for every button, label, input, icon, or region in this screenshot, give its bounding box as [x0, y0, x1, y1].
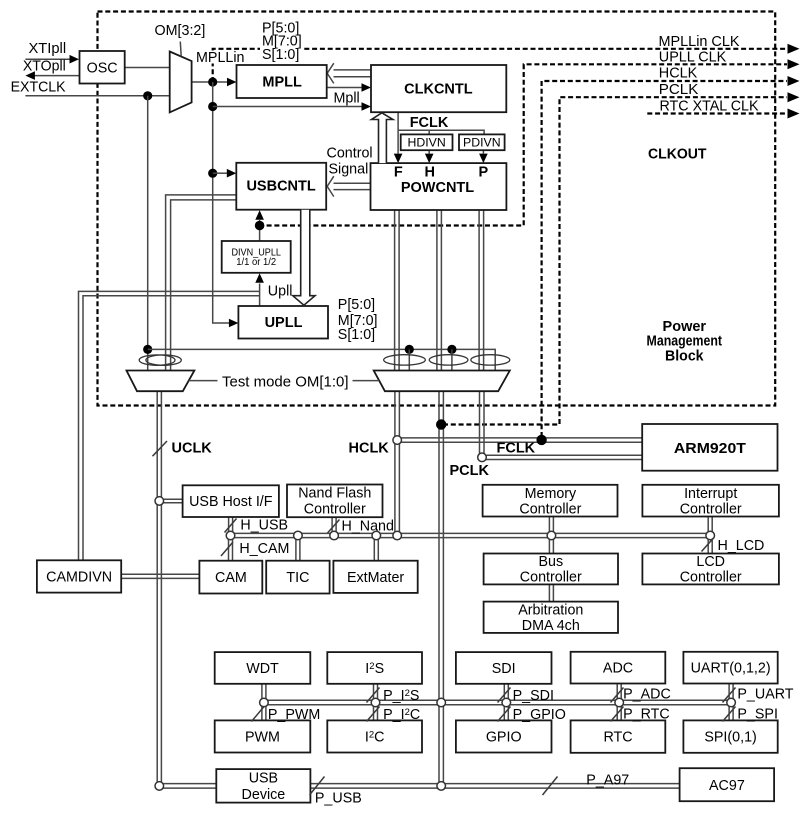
wire XTOpll output: [35, 75, 80, 77]
block TIC: [266, 561, 329, 594]
svg-text:Controller: Controller: [680, 570, 742, 586]
svg-text:Block: Block: [665, 348, 704, 364]
svg-text:RTC: RTC: [603, 730, 632, 746]
svg-text:H_USB: H_USB: [240, 518, 288, 534]
svg-text:P_ADC: P_ADC: [623, 687, 671, 703]
svg-text:WDT: WDT: [246, 661, 279, 677]
svg-text:USB Host I/F: USB Host I/F: [189, 494, 273, 510]
wire PWM stub: [261, 705, 263, 721]
wire UCLK: [156, 391, 158, 786]
svg-text:UCLK: UCLK: [172, 440, 213, 456]
wire POWCNTL F pair: [394, 210, 396, 371]
wire RTC stub: [616, 705, 618, 721]
wire UART stub: [728, 684, 730, 701]
tick P_SDI: [498, 688, 511, 703]
svg-text:XTOpll: XTOpll: [23, 59, 66, 75]
wire Bus Controller stub: [548, 538, 550, 554]
svg-text:USB: USB: [249, 771, 278, 787]
junction test tap 1: [405, 345, 414, 354]
wire divider branch: [398, 130, 484, 134]
wire test tap 1: [408, 349, 410, 370]
svg-text:OSC: OSC: [87, 60, 118, 76]
svg-text:Signal: Signal: [329, 162, 369, 178]
svg-text:HCLK: HCLK: [349, 440, 390, 456]
svg-text:Arbitration: Arbitration: [518, 602, 583, 618]
svg-text:XTIpll: XTIpll: [29, 41, 67, 57]
svg-text:PCLK: PCLK: [450, 463, 490, 479]
junction H bus TIC: [294, 531, 303, 540]
svg-text:PWM: PWM: [245, 730, 280, 746]
svg-text:DMA 4ch: DMA 4ch: [522, 618, 580, 634]
wire OSC to mux: [125, 67, 170, 69]
svg-text:H: H: [425, 164, 435, 180]
tick P_I2S: [367, 688, 380, 703]
label MPLL PMS: [260, 21, 303, 60]
bus PCLK bottom right: [310, 783, 679, 785]
svg-text:P_I2C: P_I2C: [383, 707, 420, 723]
junction UPLL CLK tap: [255, 221, 265, 231]
wire UCLK to USB Host IF: [159, 498, 182, 500]
block GPIO: [456, 720, 552, 752]
svg-text:Power: Power: [663, 319, 707, 335]
junction MPLLin to CLKCNTL: [208, 102, 217, 111]
junction P bus PWM: [260, 698, 269, 707]
wire I2S stub: [373, 684, 375, 700]
junction H bus Nand: [330, 531, 339, 540]
block I2S: [327, 652, 422, 684]
bundle ellipse left b: [146, 355, 181, 365]
svg-text:P_USB: P_USB: [315, 791, 362, 807]
svg-text:FCLK: FCLK: [410, 115, 449, 131]
wire ADC stub: [616, 684, 618, 701]
wire PCLK below mux: [438, 391, 440, 786]
wire FCLK CLKCNTL to POWCNTL: [397, 112, 399, 153]
block Arbitration DMA: [484, 602, 618, 633]
svg-text:MPLLin: MPLLin: [196, 50, 245, 66]
block LCD Controller: [642, 554, 779, 585]
wire test mode label left: [189, 380, 218, 382]
divider DIVN_UPLL: [222, 241, 291, 273]
tick P_ADC: [611, 688, 624, 703]
tick P_SPI: [723, 707, 736, 722]
svg-text:CAMDIVN: CAMDIVN: [46, 570, 112, 586]
wire XTIpll input: [25, 58, 70, 60]
wire Interrupt Controller stub: [707, 517, 709, 534]
junction test line left: [143, 345, 152, 354]
junction P bus I2S: [371, 698, 380, 707]
block PWM: [215, 720, 311, 752]
svg-text:S[1:0]: S[1:0]: [338, 327, 375, 343]
pll UPLL: [238, 306, 328, 339]
wire Mpll to CLKCNTL: [327, 87, 362, 89]
block Nand Flash Controller: [287, 485, 383, 518]
block ADC: [571, 652, 666, 684]
svg-text:MPLL: MPLL: [262, 75, 302, 91]
tick P_I2C: [367, 707, 380, 722]
junction bottom bus PCLK: [437, 782, 446, 791]
junction P bus UART: [727, 698, 736, 707]
wire SDI stub: [503, 684, 505, 700]
wire DIVN_UPLL to USBCNTL: [259, 220, 261, 241]
block USB Device: [216, 769, 310, 803]
wire MPLLin CLK dashed output: [213, 49, 787, 82]
wire H_CAM: [228, 538, 230, 561]
junction H bus ExtMater: [372, 531, 381, 540]
wire I2C stub: [373, 705, 375, 721]
wire HCLK dashed output: [542, 81, 787, 437]
divider PDIVN: [459, 134, 505, 150]
wire Upll to CAMDIVN: [79, 291, 260, 560]
svg-text:UART(0,1,2): UART(0,1,2): [691, 661, 771, 677]
bus PCLK bottom left: [159, 783, 216, 785]
bundle ellipse F: [384, 355, 426, 365]
svg-text:FCLK: FCLK: [497, 441, 536, 457]
wire CLKCNTL PMS bus to MPLL: [334, 69, 372, 71]
wire EXTCLK: [25, 95, 169, 97]
wire UPLL CLK dashed output: [259, 64, 787, 225]
label MPLLin: [194, 51, 244, 64]
svg-text:PDIVN: PDIVN: [463, 136, 501, 150]
block SPI: [683, 720, 777, 752]
bus FCLK to ARM920T: [482, 454, 642, 456]
svg-text:Controller: Controller: [680, 502, 742, 518]
svg-text:Device: Device: [242, 787, 286, 803]
mux test mode left: [127, 371, 195, 392]
tick H_LCD: [702, 538, 714, 552]
wire HDIVN to POWCNTL: [428, 150, 430, 153]
wire SPI stub: [728, 705, 730, 721]
junction PCLK dashed tap: [436, 419, 446, 429]
wire PCLK dashed output: [443, 97, 787, 424]
wire WDT stub: [261, 684, 263, 700]
wire test mode label right: [353, 380, 380, 382]
block arrow USBCNTL to UPLL: [293, 210, 315, 306]
block I2C: [327, 720, 422, 752]
wire test mode line: [148, 349, 496, 370]
svg-text:Nand Flash: Nand Flash: [298, 486, 371, 502]
wire Memory Controller stub: [548, 517, 550, 534]
tick P_PWM: [252, 706, 265, 722]
bus HCLK peripherals: [231, 532, 711, 534]
bundle ellipse left a: [139, 355, 175, 365]
svg-text:P_A97: P_A97: [586, 773, 629, 789]
tick H_CAM: [221, 542, 233, 556]
svg-text:Upll: Upll: [268, 284, 293, 300]
tick H_Nand: [328, 520, 340, 534]
svg-text:Controller: Controller: [304, 501, 366, 517]
junction HCLK node: [393, 436, 402, 445]
svg-text:H_Nand: H_Nand: [342, 518, 395, 534]
svg-text:Controller: Controller: [519, 502, 581, 518]
svg-text:I2S: I2S: [365, 661, 384, 677]
block RTC: [571, 720, 666, 752]
block USB Host I/F: [183, 485, 279, 517]
junction H bus USB Host: [226, 531, 235, 540]
wire POWCNTL H pair: [436, 210, 438, 371]
wire H_Nand: [331, 517, 333, 534]
pll MPLL: [237, 65, 327, 98]
junction bottom bus UCLK: [155, 782, 164, 791]
block UART: [683, 652, 777, 684]
mux test mode right: [374, 371, 510, 392]
block AC97: [680, 768, 775, 801]
block Memory Controller: [483, 485, 618, 517]
tick UCLK: [153, 441, 168, 456]
block POWCNTL: [371, 163, 507, 210]
svg-text:SPI(0,1): SPI(0,1): [704, 730, 756, 746]
svg-text:CLKOUT: CLKOUT: [648, 146, 707, 162]
bus PCLK peripherals: [264, 699, 731, 701]
svg-text:Bus: Bus: [538, 554, 563, 570]
tick H_USB: [225, 519, 237, 533]
svg-text:Controller: Controller: [520, 570, 582, 586]
wire MPLLin vertical to UPLL: [213, 82, 229, 323]
wire test tap 2: [451, 349, 453, 370]
svg-text:P_SDI: P_SDI: [513, 688, 554, 704]
svg-text:P_GPIO: P_GPIO: [513, 707, 566, 723]
block CAMDIVN: [37, 560, 121, 592]
wire H_LCD: [707, 538, 709, 554]
wire EXTCLK test-mode vertical: [147, 96, 149, 371]
svg-text:Test mode OM[1:0]: Test mode OM[1:0]: [222, 374, 349, 390]
svg-text:AC97: AC97: [709, 778, 745, 794]
svg-text:ARM920T: ARM920T: [674, 441, 746, 457]
tick P_USB: [310, 777, 325, 796]
svg-text:Management: Management: [647, 334, 723, 350]
wire OM[3:2] pointer: [179, 42, 182, 57]
svg-text:SDI: SDI: [492, 661, 516, 677]
wire CAMDIVN to CAM: [121, 573, 199, 575]
wire USB Host to H bus: [228, 517, 230, 534]
svg-text:HDIVN: HDIVN: [407, 136, 445, 150]
svg-text:LCD: LCD: [696, 554, 725, 570]
junction H bus HCLK feed: [393, 531, 402, 540]
junction HCLK dashed tap: [536, 435, 546, 445]
svg-text:Interrupt: Interrupt: [684, 486, 737, 502]
svg-text:S[1:0]: S[1:0]: [262, 47, 299, 63]
junction test tap 2: [447, 345, 456, 354]
junction H bus LCD: [706, 531, 715, 540]
svg-text:H_CAM: H_CAM: [239, 541, 289, 557]
svg-text:RTC XTAL CLK: RTC XTAL CLK: [660, 99, 759, 115]
block CAM: [199, 561, 262, 594]
junction MPLLin: [208, 77, 217, 86]
wire Upll UPLL to DIVN_UPLL: [259, 284, 261, 307]
svg-text:ExtMater: ExtMater: [347, 570, 404, 586]
wire MPLLin to CLKCNTL: [213, 106, 362, 108]
svg-text:P[5:0]: P[5:0]: [338, 297, 375, 313]
tick P_RTC: [611, 707, 624, 722]
bus HCLK to ARM920T: [397, 437, 642, 439]
svg-text:P_PWM: P_PWM: [268, 707, 320, 723]
svg-text:TIC: TIC: [286, 570, 309, 586]
block WDT: [215, 652, 311, 684]
svg-text:HCLK: HCLK: [659, 66, 698, 82]
wire USBCNTL to left test mux pair: [166, 195, 237, 371]
wire Bus Controller to Arbitration: [548, 584, 550, 601]
tick P_A97: [543, 777, 558, 796]
block Bus Controller: [484, 554, 618, 585]
svg-text:CAM: CAM: [215, 570, 247, 586]
svg-text:P: P: [478, 164, 488, 180]
cpu ARM920T: [642, 424, 777, 471]
block ExtMater: [333, 561, 417, 593]
tick P_UART: [723, 688, 736, 703]
wire PDIVN to POWCNTL: [482, 150, 484, 153]
svg-text:P_I2S: P_I2S: [383, 688, 419, 704]
junction P bus SDI: [502, 698, 511, 707]
junction P bus ADC: [615, 698, 624, 707]
wire POWCNTL P pair: [478, 210, 480, 371]
bundle ellipse H: [429, 355, 468, 365]
svg-text:Memory: Memory: [525, 486, 577, 502]
svg-text:OM[3:2]: OM[3:2]: [155, 23, 206, 39]
wire RTC XTAL CLK dashed output: [647, 112, 787, 114]
oscillator OSC: [80, 51, 125, 84]
divider HDIVN: [401, 134, 453, 150]
junction H bus Memory: [547, 531, 556, 540]
tick P_GPIO: [498, 707, 511, 722]
junction MPLLin to USBCNTL: [208, 169, 217, 178]
svg-text:UPLL CLK: UPLL CLK: [659, 49, 727, 65]
svg-text:MPLLin CLK: MPLLin CLK: [659, 34, 740, 50]
svg-text:POWCNTL: POWCNTL: [401, 180, 474, 196]
wire mux output MPLLin: [192, 81, 228, 83]
junction FCLK node: [478, 453, 487, 462]
svg-text:GPIO: GPIO: [486, 730, 522, 746]
block CLKCNTL: [371, 65, 506, 112]
wire ExtMater stub: [373, 538, 375, 561]
junction EXTCLK branch: [143, 91, 152, 100]
svg-text:Mpll: Mpll: [334, 91, 360, 107]
junction P bus PCLK feed: [437, 698, 446, 707]
wire MPLLin to USBCNTL: [213, 172, 228, 174]
svg-text:EXTCLK: EXTCLK: [11, 79, 66, 95]
svg-text:1/1 or 1/2: 1/1 or 1/2: [236, 257, 276, 268]
svg-text:Control: Control: [327, 146, 373, 162]
wire GPIO stub: [503, 705, 505, 721]
power management block dashed border: [98, 12, 776, 406]
svg-text:USBCNTL: USBCNTL: [246, 179, 315, 195]
bundle ellipse P: [471, 355, 510, 365]
svg-text:ADC: ADC: [603, 661, 633, 677]
svg-text:PCLK: PCLK: [659, 82, 699, 98]
block Interrupt Controller: [642, 485, 779, 517]
wire control signal bus: [334, 182, 371, 184]
wire TIC stub: [295, 538, 297, 561]
svg-text:CLKCNTL: CLKCNTL: [404, 82, 473, 98]
svg-text:F: F: [394, 164, 403, 180]
block USBCNTL: [236, 163, 326, 210]
svg-text:P_UART: P_UART: [737, 687, 793, 703]
junction UCLK USB Host: [155, 497, 164, 506]
svg-text:H_LCD: H_LCD: [718, 538, 765, 554]
svg-text:P_SPI: P_SPI: [737, 707, 778, 723]
svg-text:I2C: I2C: [365, 730, 385, 746]
wire HCLK below mux: [394, 391, 396, 535]
mux OM[3:2]: [170, 52, 192, 113]
wire FCLK below mux: [479, 391, 481, 457]
svg-text:UPLL: UPLL: [265, 315, 303, 331]
block SDI: [456, 652, 552, 684]
block arrow POWCNTL to CLKCNTL: [372, 113, 393, 163]
svg-text:P_RTC: P_RTC: [623, 707, 670, 723]
